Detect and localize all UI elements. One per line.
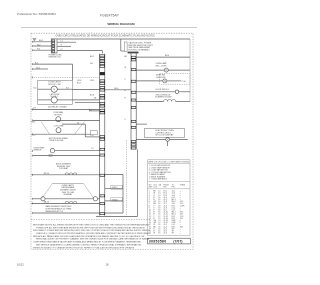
oven lamp symbol xyxy=(164,68,168,72)
svg-text:T-9: T-9 xyxy=(91,148,94,150)
label BK-4 xyxy=(165,55,169,57)
svg-text:MOTOR: MOTOR xyxy=(54,114,62,116)
indicator light symbol xyxy=(163,79,167,83)
svg-text:MEASURED AT 75 F: MEASURED AT 75 F xyxy=(46,210,65,213)
svg-text:FGB24T5AP: FGB24T5AP xyxy=(100,14,119,18)
svg-text:18: 18 xyxy=(106,263,109,267)
connector J1 keyed pin dark xyxy=(100,72,105,75)
rail-side labels OR-6 BU-7 xyxy=(77,80,81,84)
terminal circle right xyxy=(93,197,97,201)
pin label V-10 xyxy=(125,119,127,121)
title WIRING DIAGRAM xyxy=(107,22,135,26)
svg-text:DK-4: DK-4 xyxy=(114,88,118,90)
wire J1 to J2 DK-4 xyxy=(105,89,131,91)
top distribution line L1 bus xyxy=(57,38,190,40)
terminal circle left xyxy=(41,197,45,201)
door latch box xyxy=(38,80,73,104)
right vertical bus xyxy=(189,39,191,101)
footer revision text xyxy=(17,263,24,267)
svg-text:OVEN CIRCUIT/ELEVATED DE WIRIN: OVEN CIRCUIT/ELEVATED DE WIRING/CIRCUIT … xyxy=(56,34,155,37)
pin label R-9 xyxy=(125,98,127,100)
svg-text:COMPONENT RESISTANCE VALUES AR: COMPONENT RESISTANCE VALUES ARE NOMINAL … xyxy=(33,241,142,244)
pin label W-3 xyxy=(90,63,93,65)
oven lamp label xyxy=(156,62,168,67)
svg-text:V-9: V-9 xyxy=(33,108,36,110)
pin label BK-2 xyxy=(90,56,94,58)
notes text block upper right xyxy=(129,42,154,52)
svg-text:Publication No: 5995536064: Publication No: 5995536064 xyxy=(17,12,56,16)
svg-text:L2: L2 xyxy=(61,49,63,51)
broil element label xyxy=(56,164,72,171)
svg-text:REF: REF xyxy=(149,187,153,189)
label B-5 xyxy=(35,62,38,64)
connector J1 mid pins xyxy=(100,80,105,114)
rtd junction box xyxy=(90,131,97,135)
label R-7 xyxy=(66,88,69,90)
connector J2 feed stub xyxy=(124,42,127,51)
connector J2 header band xyxy=(128,52,139,54)
svg-text:REPLACE ALL PANELS AND GROUND: REPLACE ALL PANELS AND GROUND LEADS BEFO… xyxy=(33,235,145,238)
svg-text:B-1: B-1 xyxy=(89,109,92,111)
label B-1 xyxy=(89,109,92,111)
door latch motor M1 xyxy=(38,86,73,92)
cooling fan wire xyxy=(33,133,90,135)
svg-text:OR-5: OR-5 xyxy=(90,80,94,82)
svg-text:SW + LIGHT: SW + LIGHT xyxy=(156,66,168,68)
latch switch label xyxy=(50,93,60,98)
wire J1 pin stub xyxy=(89,110,100,112)
wire latch to rail B xyxy=(72,100,99,102)
svg-text:16: 16 xyxy=(158,233,160,235)
svg-text:BK-1: BK-1 xyxy=(39,40,43,42)
header underline rule xyxy=(21,27,197,29)
svg-text:B-12: B-12 xyxy=(32,134,36,136)
pin label T-9 xyxy=(91,148,94,150)
grill element symbol xyxy=(136,99,190,101)
svg-text:P-10: P-10 xyxy=(182,81,186,83)
svg-text:7. OVEN LAMP ASSY: 7. OVEN LAMP ASSY xyxy=(149,178,167,181)
connector rail J1 body xyxy=(100,54,105,216)
svg-text:TOP HEAT: TOP HEAT xyxy=(59,167,69,170)
console dashed line xyxy=(126,140,128,217)
label DK-4 xyxy=(114,88,118,90)
pin label P-6 xyxy=(125,79,127,81)
svg-text:OVEN IS IN USE: OVEN IS IN USE xyxy=(49,140,64,142)
stepped wire to J1 xyxy=(62,124,100,137)
wire to latch box xyxy=(33,64,73,80)
convection fan wire xyxy=(33,119,100,121)
svg-text:T-8: T-8 xyxy=(77,122,80,124)
svg-text:CHECK ALL CONNECTORS FOR PROPE: CHECK ALL CONNECTORS FOR PROPER SEATING,… xyxy=(36,232,151,235)
svg-text:B-11: B-11 xyxy=(32,122,36,124)
footer page number xyxy=(106,263,109,267)
wire P1 pin3 to node N xyxy=(57,45,71,47)
wire data table xyxy=(148,183,190,234)
svg-text:DOOR SW N.O.: DOOR SW N.O. xyxy=(156,89,170,91)
svg-text:W/ CLOCK DISPLAY: W/ CLOCK DISPLAY xyxy=(156,134,174,137)
model number header text xyxy=(100,14,119,18)
schematic dashed border box xyxy=(31,33,193,249)
label B-11 xyxy=(32,122,36,124)
svg-text:B-5: B-5 xyxy=(35,62,38,64)
bottom service notes text xyxy=(33,223,151,249)
pin label Y-12 xyxy=(90,135,94,137)
svg-text:(7/07): (7/07) xyxy=(173,239,182,243)
pin label BK-4b xyxy=(125,56,128,58)
svg-text:COOL FAN: COOL FAN xyxy=(54,125,64,128)
svg-text:BK-4: BK-4 xyxy=(165,55,169,57)
convection fan label xyxy=(53,111,63,116)
svg-text:TERM BLOCK: TERM BLOCK xyxy=(48,57,61,59)
svg-text:IMPORTANT NOTES: ALL WIRING SH: IMPORTANT NOTES: ALL WIRING SHOWN WITH T… xyxy=(33,223,150,226)
svg-text:BU-7: BU-7 xyxy=(77,83,81,85)
svg-text:BU-6: BU-6 xyxy=(90,95,94,97)
label P-10 xyxy=(182,81,186,83)
svg-text:30953560: 30953560 xyxy=(149,239,167,243)
control box electronic oven control xyxy=(144,129,184,138)
pin label B-8 xyxy=(125,90,127,92)
grill element label xyxy=(156,94,172,98)
connector rail J2 body xyxy=(131,53,136,149)
schematic banner text OVEN CIRCUIT xyxy=(56,34,155,37)
svg-text:MOTOR + SW: MOTOR + SW xyxy=(48,84,60,86)
connector J1 top pin cluster xyxy=(100,55,105,67)
svg-text:B-6: B-6 xyxy=(34,88,37,90)
pin label BU-6 xyxy=(90,95,94,97)
svg-text:NOMINAL: NOMINAL xyxy=(64,193,73,196)
wire to oven lamp xyxy=(136,69,164,71)
separator dashed line xyxy=(31,219,150,221)
oven sensor probe xyxy=(50,149,99,153)
svg-text:SEE SERVICE DATA SHEET LOCATED: SEE SERVICE DATA SHEET LOCATED BEHIND CO… xyxy=(36,243,142,246)
legend list xyxy=(148,162,190,182)
cooling fan motor xyxy=(56,128,61,133)
svg-text:BR-14: BR-14 xyxy=(44,173,49,175)
svg-text:L1: L1 xyxy=(61,41,63,43)
pin label W-5 xyxy=(125,67,127,69)
connector P1 label xyxy=(48,54,62,58)
label GRN-8 xyxy=(111,198,122,202)
wire P1 pin5 to rail J1 xyxy=(57,51,102,54)
svg-text:WIRING IS SUBJECT TO CHANGE WI: WIRING IS SUBJECT TO CHANGE WITHOUT NOTI… xyxy=(33,246,135,249)
label BR-14 xyxy=(44,173,49,175)
oven cavity trapezoid xyxy=(42,183,94,198)
door switch label xyxy=(156,89,170,91)
wire oven lamp to bus xyxy=(168,69,190,71)
svg-text:GRN-7: GRN-7 xyxy=(112,187,118,189)
indicator light label xyxy=(156,75,166,79)
ground loop wire xyxy=(105,175,123,214)
label GY-2 xyxy=(36,67,40,69)
ground jumper 1 xyxy=(105,188,123,190)
bake element xyxy=(32,201,100,203)
svg-text:LIGHT SW: LIGHT SW xyxy=(156,77,166,79)
svg-text:ELEMENT 1500W: ELEMENT 1500W xyxy=(156,97,172,99)
pin label OR-5 xyxy=(90,80,94,82)
label T-8 xyxy=(77,122,80,124)
label N xyxy=(61,45,63,47)
label under latch box xyxy=(48,106,68,109)
J2 feed drop wire xyxy=(121,39,125,51)
label M xyxy=(53,89,55,91)
left border wire entry ticks xyxy=(31,41,33,214)
oven sensor label xyxy=(34,147,46,151)
sensor return wire xyxy=(33,154,100,156)
svg-text:BA-13: BA-13 xyxy=(44,201,49,204)
label L2 xyxy=(61,49,63,51)
connector J2 pins xyxy=(131,56,136,149)
label 4B xyxy=(94,97,98,99)
convection fan motor xyxy=(56,117,61,122)
svg-text:WIRING DIAGRAM: WIRING DIAGRAM xyxy=(107,22,135,26)
wire L1 supply to connector P1 xyxy=(33,41,51,43)
bottom return wire xyxy=(33,212,100,214)
broil element xyxy=(32,173,100,175)
ground jumper 2 xyxy=(105,200,123,202)
door latch motor M2 xyxy=(38,97,73,103)
bake feed wire xyxy=(33,198,100,200)
svg-text:BK-2: BK-2 xyxy=(90,56,94,58)
svg-text:POWER OFF. ALL SWITCHES ARE SH: POWER OFF. ALL SWITCHES ARE SHOWN IN THE… xyxy=(36,226,146,229)
dashed sense wire xyxy=(32,76,100,78)
control indicator symbol xyxy=(166,138,170,147)
svg-text:SENSOR: SENSOR xyxy=(34,150,42,152)
oven cavity text xyxy=(60,184,76,196)
label W-2 xyxy=(37,44,40,46)
wire J2 spare stub xyxy=(136,123,147,125)
indicator dashed enclosure xyxy=(160,74,191,85)
label L1 xyxy=(61,41,63,43)
wire below latch box xyxy=(32,108,100,110)
wire indicator to P-10 xyxy=(167,80,181,82)
svg-text:OHMS: OHMS xyxy=(180,184,186,186)
legend table outer box xyxy=(148,160,190,236)
wire L2 supply to connector P1 xyxy=(33,49,51,51)
wire to indicator light xyxy=(136,80,162,82)
spare supply stub wire xyxy=(33,68,48,70)
label R-3 xyxy=(37,49,40,51)
wire P1 pin2 to node L1 xyxy=(57,41,76,43)
publication number header text xyxy=(17,12,56,16)
connector J1 lower pins xyxy=(100,136,105,215)
svg-text:DLB RELAY CONTACT: DLB RELAY CONTACT xyxy=(48,106,68,109)
svg-text:W-3: W-3 xyxy=(90,63,93,65)
J2 return wire xyxy=(96,150,137,217)
wire with door switch xyxy=(136,90,190,93)
cooling fan label xyxy=(54,125,64,128)
svg-text:DISCONNECT POWER BEFORE SERVIC: DISCONNECT POWER BEFORE SERVICING UNIT. … xyxy=(33,229,151,232)
label V-9 xyxy=(33,108,36,110)
svg-text:10/12: 10/12 xyxy=(17,263,24,267)
label GRN-7 xyxy=(111,185,122,189)
drawing number box xyxy=(148,238,191,244)
svg-text:W-2: W-2 xyxy=(37,44,40,46)
door latch motor label xyxy=(48,81,61,86)
wire N supply to connector P1 xyxy=(33,45,51,47)
svg-text:J2-6: J2-6 xyxy=(163,233,166,235)
label B-6 xyxy=(34,88,37,90)
fan shroud trapezoid xyxy=(41,122,85,135)
label BK-1 xyxy=(39,40,43,42)
bake element caption xyxy=(46,205,73,213)
wire latch to rail A xyxy=(72,89,99,91)
svg-text:PERSONAL INJURY OR PROPERTY DA: PERSONAL INJURY OR PROPERTY DAMAGE. SEE … xyxy=(36,238,150,241)
svg-text:R-3: R-3 xyxy=(37,49,40,51)
fan motor caption xyxy=(49,138,68,142)
svg-text:R-7: R-7 xyxy=(66,88,69,90)
label B-12 xyxy=(32,134,36,136)
ground symbol at supply entry xyxy=(33,39,37,41)
svg-text:GRN-8: GRN-8 xyxy=(112,199,118,201)
wire J2 to right bus top xyxy=(136,56,190,58)
svg-text:21: 21 xyxy=(149,233,151,235)
label BA-13 xyxy=(44,201,49,204)
svg-text:GY-2: GY-2 xyxy=(36,67,40,69)
connector P1 (power cord plug) xyxy=(51,39,57,53)
wire control to right xyxy=(136,138,187,140)
svg-text:FOR FULL SCHEMATIC: FOR FULL SCHEMATIC xyxy=(129,49,151,52)
